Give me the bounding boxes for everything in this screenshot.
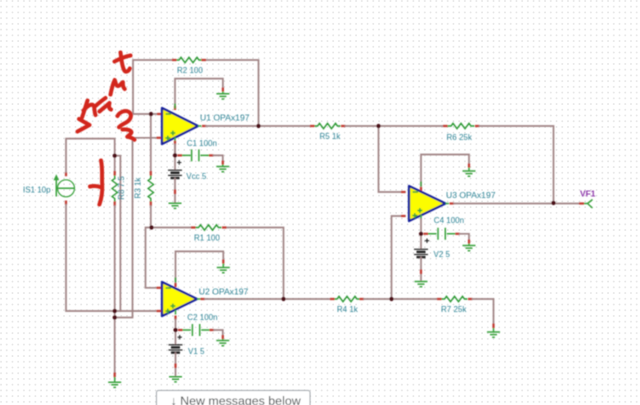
wire U2 output row [201,298,331,300]
wire U1 Vplus pin down [174,145,176,156]
annotation red pointer line [90,161,102,205]
resistor R7 [437,296,473,314]
node rail junction lower [113,315,117,319]
svg-text:V1 5: V1 5 [188,347,205,356]
capacitor C4 [424,216,470,244]
svg-text:Vcc 5: Vcc 5 [186,172,207,181]
ground C1 [216,165,229,172]
wire lower rail to U1 plus [115,138,161,318]
svg-text:R3 1k: R3 1k [133,177,142,199]
op-amp U1 [162,104,250,145]
resistor R5 [310,123,346,141]
wire R5 to R6 [346,125,444,127]
svg-text:R6 25k: R6 25k [447,133,473,142]
resistor R4 [330,296,364,314]
resistor R3 [133,114,153,206]
wire node stub right [115,156,121,311]
new messages button [157,391,311,405]
wire U1 Vminus pin to ground loop [175,79,223,110]
svg-text:U3 OPAx197: U3 OPAx197 [446,190,496,200]
annotation handwritten s [78,119,90,132]
op-amp U2 [162,278,249,317]
node U1 inverting input junction [149,112,153,116]
ground C4 [463,244,476,251]
current source IS1 [23,172,75,205]
svg-text:R5 1k: R5 1k [320,132,342,141]
ground C2 [216,339,229,346]
node U3 supply junction [419,232,423,236]
wire R6 down to U3 output node [480,126,554,203]
wire U2 Vplus pin down [174,316,176,331]
resistor R8 [112,156,126,206]
wire IS1 bottom to U2 plus [66,205,161,311]
svg-text:U2 OPAx197: U2 OPAx197 [199,286,249,296]
ground rail bottom [108,377,121,387]
ground U3 supply [463,168,476,177]
wire U3 Vplus pin down [420,219,422,234]
node source top junction [113,154,117,158]
svg-text:IS1 10p: IS1 10p [23,185,51,194]
svg-text:R4 1k: R4 1k [337,305,359,314]
annotation handwritten u [96,98,112,112]
battery V1 [169,330,206,376]
op-amp U3 [409,182,496,222]
node U1 supply junction [173,153,177,157]
svg-text:V2 5: V2 5 [434,250,451,259]
resistor R6 [443,123,480,142]
svg-text:R2 100: R2 100 [177,66,203,75]
wire R3 bottom to junction [150,206,152,228]
battery Vcc [168,155,207,202]
ground U2 supply [217,264,230,273]
wire U3 Vminus pin to ground loop [421,155,469,192]
node U1 output feedback junction [256,124,260,128]
annotation handwritten question mark [118,111,135,140]
svg-text:C1 100n: C1 100n [187,139,217,148]
svg-text:C2 100n: C2 100n [187,313,217,322]
wire U1 output row to R5 [175,126,310,155]
ground R7 end [487,328,500,337]
voltage probe VF1 [579,188,596,208]
wire U1 minus pin [157,113,162,115]
annotation handwritten t [115,53,131,72]
wire U2 Vminus pin to ground loop [176,251,224,287]
wire U3 output to VF1 [450,202,580,204]
node rail junction upper [113,309,117,313]
wire R2 feedback loop top [133,60,259,126]
node U3 branch junction [376,124,380,128]
resistor R1 [191,225,227,243]
battery V2 [414,234,451,281]
node U2 supply junction [173,328,177,332]
annotation handwritten h [82,101,96,118]
node R3 to R1 junction [149,225,153,229]
wire R1 feedback loop [152,228,284,300]
ground V2 [415,282,428,287]
wire R4 to R7 [364,298,437,300]
svg-text:C4 100n: C4 100n [434,216,464,225]
svg-text:R7 25k: R7 25k [441,305,467,314]
svg-text:VF1: VF1 [580,188,596,198]
wire junction to U3 inverting input [379,126,406,192]
svg-text:U1 OPAx197: U1 OPAx197 [200,113,250,123]
resistor R2 [172,57,206,75]
capacitor C1 [178,139,223,165]
capacitor C2 [178,313,223,339]
ground U1 supply [216,92,229,100]
wire R7 to ground [473,299,494,328]
node R1 feedback junction lower [281,297,285,301]
ground V1 [169,377,182,382]
wire U3 plus input from bottom row [392,216,406,299]
node U3 output junction [551,201,555,205]
annotation handwritten n [111,80,125,95]
svg-text:↓ New messages below: ↓ New messages below [171,394,301,405]
wire junction to U2 inverting input [146,228,162,288]
wire R8 bottom to ground rail [114,206,116,377]
node U3 plus branch junction [389,297,393,301]
ground Vcc [169,203,182,208]
wire IS1 top to node [66,139,115,172]
svg-text:R8 7.5: R8 7.5 [117,176,126,200]
svg-text:R1 100: R1 100 [194,233,220,242]
